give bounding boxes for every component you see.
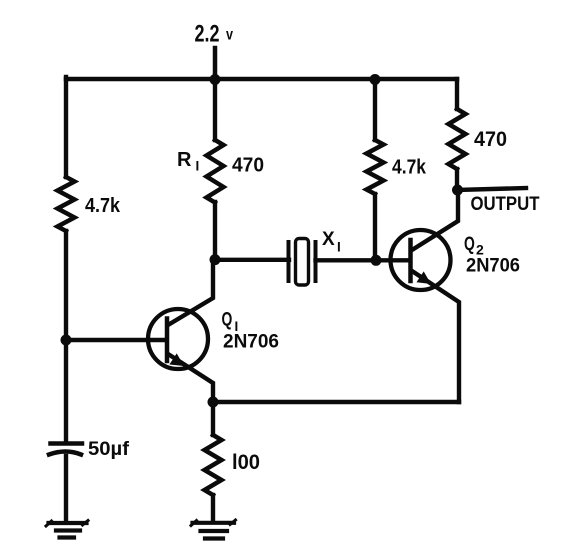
resistor 470 (output load)	[449, 109, 466, 169]
svg-text:Q: Q	[222, 310, 233, 331]
junction node OUTPUT	[452, 185, 463, 196]
ground (left)	[49, 523, 87, 538]
ground (center)	[193, 523, 235, 539]
svg-text:l00: l00	[232, 451, 260, 474]
capacitor C1 50uf top plate	[51, 441, 83, 446]
node VCC 2.2v feed wire	[213, 48, 218, 79]
junction node R1 / crystal / Q1 collector	[210, 254, 221, 265]
wire Q2 collector	[412, 191, 458, 250]
svg-text:v: v	[226, 27, 233, 44]
resistor 4.7k (left bias)	[58, 177, 75, 231]
svg-text:I: I	[337, 240, 341, 255]
resistor 100 (emitter)	[205, 435, 222, 495]
wire Q1 base lead	[66, 338, 165, 342]
wire Q1 collector	[168, 259, 213, 325]
svg-text:R: R	[177, 149, 192, 171]
transistor Q2 circle	[391, 230, 451, 290]
junction node at 4.7k right top	[370, 74, 381, 85]
svg-text:OUTPUT: OUTPUT	[471, 194, 540, 215]
crystal X1 right plate	[314, 242, 318, 281]
wire 4.7k right lower lead	[373, 194, 377, 260]
svg-text:I: I	[196, 159, 200, 174]
transistor Q1 circle	[148, 309, 208, 369]
wire 100 lower lead	[211, 495, 215, 521]
arrow Q1 emitter	[169, 353, 184, 366]
svg-text:2N706: 2N706	[223, 331, 279, 353]
transistor Q2 base bar	[408, 240, 413, 281]
svg-text:470: 470	[232, 155, 264, 177]
wire 4.7k right upper lead	[373, 79, 377, 140]
svg-text:2.2: 2.2	[195, 21, 220, 48]
junction node crystal / 4.7k / Q2 base	[371, 255, 382, 266]
crystal X1 left plate	[287, 242, 291, 281]
wire 470 right upper lead	[455, 79, 459, 109]
wire Q2 emitter	[412, 271, 459, 402]
arrow Q2 emitter	[417, 271, 432, 284]
wire R1 upper lead	[213, 79, 217, 140]
wire crystal left lead	[215, 258, 289, 262]
wire left branch upper	[64, 77, 68, 177]
wire OUTPUT stub	[457, 188, 526, 190]
crystal X1 body	[296, 239, 309, 286]
svg-text:4.7k: 4.7k	[392, 157, 427, 179]
wire crystal right lead to Q2 base	[316, 258, 409, 262]
wire 100 upper lead	[211, 402, 215, 435]
junction node emitter rail / 100	[208, 397, 219, 408]
wire top supply rail	[66, 77, 457, 82]
capacitor C1 50uf bottom plate	[49, 452, 81, 455]
wire R1 lower lead	[213, 202, 217, 260]
wire left branch middle	[64, 231, 68, 442]
wire left branch lower	[64, 456, 68, 520]
wire bottom rail	[213, 400, 459, 404]
transistor Q1 base bar	[165, 319, 170, 362]
svg-text:50µf: 50µf	[88, 438, 130, 460]
resistor 4.7k (right)	[367, 140, 384, 194]
junction node at VCC / R1	[210, 74, 221, 85]
wire Q1 emitter	[168, 354, 213, 402]
wire 470 lower lead	[455, 169, 459, 191]
svg-text:Q: Q	[464, 234, 475, 255]
svg-text:X: X	[322, 229, 335, 250]
resistor R1 470	[207, 140, 224, 203]
svg-text:2N706: 2N706	[466, 256, 520, 277]
svg-text:470: 470	[474, 128, 507, 151]
svg-text:4.7k: 4.7k	[85, 195, 121, 217]
junction node Q1 base / left branch	[61, 335, 72, 346]
